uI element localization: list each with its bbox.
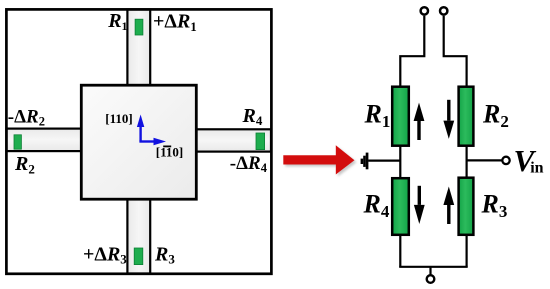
wire stub to bottom terminal — [429, 267, 431, 275]
crystal axis [1-10] arrow (blue, right) — [139, 140, 155, 142]
terminal top-left circle — [421, 7, 428, 14]
red transition arrow — [283, 145, 354, 174]
gauge resistor R2 (green, left arm) — [14, 135, 21, 149]
bottom terminal circle — [427, 275, 435, 283]
gauge resistor R3 (green, bottom arm) — [134, 248, 143, 265]
bridge resistor R3 (green) — [459, 178, 474, 235]
svg-text:in: in — [530, 160, 543, 177]
ground symbol (rotated) — [366, 153, 369, 170]
wire R1 bottom to R4 top (left mid vertical) — [399, 146, 401, 178]
svg-text:[110]: [110] — [105, 111, 132, 126]
current arrow up (beside R1) — [417, 121, 420, 140]
bottom rail wire — [399, 266, 468, 268]
arm left (piezoresistor arm) — [7, 129, 83, 152]
wire mid-left to ground — [368, 160, 400, 162]
wire R2 bottom to R3 top (right mid vertical) — [466, 146, 468, 178]
bridge resistor R1 (green) — [392, 87, 409, 146]
central die square — [81, 85, 196, 199]
gauge resistor R1 (green, top arm) — [135, 19, 143, 35]
wire R4 bottom to bottom rail — [399, 235, 401, 267]
arm bottom (piezoresistor arm) — [127, 198, 150, 274]
current arrow down (beside R2) — [447, 100, 450, 121]
arm right (piezoresistor arm) — [195, 129, 271, 151]
bridge resistor R2 (green) — [459, 87, 474, 146]
wire mid-right to Vin terminal — [467, 159, 502, 161]
Vin terminal circle — [502, 157, 509, 164]
outer membrane square — [6, 9, 271, 273]
wire R3 bottom to bottom rail — [466, 235, 468, 267]
current arrow down (beside R4) — [418, 186, 421, 205]
gauge resistor R4 (green, right arm) — [256, 133, 265, 150]
crystal axis [110] arrow (blue, up) — [139, 126, 141, 142]
svg-text:+ΔR1: +ΔR1 — [153, 11, 197, 34]
arm top (piezoresistor arm) — [127, 10, 150, 87]
bridge resistor R4 (green) — [392, 178, 409, 235]
terminal top-right circle — [440, 7, 447, 14]
current arrow up (beside R3) — [447, 205, 450, 224]
wire top-right terminal to R2 — [444, 16, 467, 86]
wire top-left terminal to R1 — [400, 16, 424, 86]
